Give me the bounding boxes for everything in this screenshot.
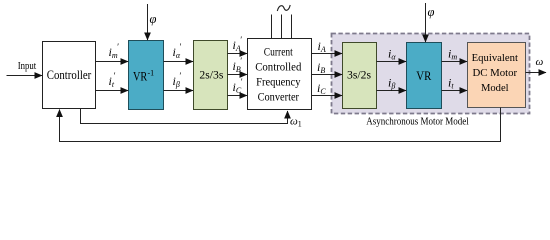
svg-text:VR: VR (133, 70, 148, 84)
svg-text:-1: -1 (148, 69, 155, 78)
wire: im VR to model (442, 61, 468, 63)
wire: iA converter to 3s/2s (312, 53, 343, 55)
block VR (407, 43, 442, 109)
wire: iC* 2s/3s to converter (228, 95, 248, 97)
svg-text:φ: φ (150, 12, 157, 26)
svg-text:2s/3s: 2s/3s (199, 68, 223, 82)
wire: i-beta* VR^-1 to 2s/3s (164, 90, 194, 92)
svg-text:Current: Current (264, 47, 294, 59)
svg-text:Equivalent: Equivalent (472, 52, 518, 64)
wire: it* Controller to VR^-1 (96, 90, 129, 92)
block Equivalent DC Motor Model (468, 43, 526, 108)
svg-text:DC Motor: DC Motor (472, 67, 517, 79)
wire: iB converter to 3s/2s (312, 74, 343, 76)
svg-text:Controlled: Controlled (255, 62, 301, 74)
block 2s/3s (194, 41, 228, 110)
wire: phi arrow right (425, 3, 427, 42)
wire: omega1 controller to converter (81, 109, 288, 124)
wire: omega output (526, 72, 547, 74)
svg-text:it′: it′ (109, 71, 117, 89)
wire: iC converter to 3s/2s (312, 95, 343, 97)
svg-text:Converter: Converter (258, 92, 300, 104)
svg-text:iB′: iB′ (233, 56, 243, 74)
wire: Input arrow (7, 75, 43, 77)
svg-text:iB: iB (317, 60, 325, 75)
wire: iB* 2s/3s to converter (228, 74, 248, 76)
svg-text:Controller: Controller (47, 68, 92, 82)
svg-text:iA′: iA′ (233, 35, 243, 53)
svg-text:iα′: iα′ (173, 42, 183, 60)
svg-text:φ: φ (428, 5, 435, 19)
svg-text:Input: Input (18, 61, 37, 72)
wire: omega feedback to controller (60, 108, 501, 142)
svg-text:Frequency: Frequency (256, 77, 301, 89)
svg-text:Model: Model (481, 82, 509, 94)
wire: it VR to model (442, 90, 468, 92)
wire: im* Controller to VR^-1 (96, 61, 129, 63)
block Controller (43, 42, 96, 109)
svg-text:ω1: ω1 (290, 116, 302, 129)
svg-text:im′: im′ (109, 42, 120, 60)
svg-text:iβ′: iβ′ (173, 71, 182, 89)
block VR^-1 (129, 41, 164, 110)
svg-text:iA: iA (318, 39, 326, 54)
wire: i-beta 3s/2s to VR (377, 90, 407, 92)
wire: i-alpha 3s/2s to VR (377, 61, 407, 63)
block 3s/2s (343, 43, 377, 109)
svg-text:VR: VR (416, 69, 432, 83)
dashed container: Asynchronous Motor Model (332, 34, 530, 114)
svg-text:ω: ω (536, 56, 544, 68)
svg-text:Asynchronous Motor Model: Asynchronous Motor Model (366, 117, 469, 128)
wire: phi arrow left (147, 4, 149, 40)
svg-text:iC′: iC′ (233, 77, 244, 95)
wire: i-alpha* VR^-1 to 2s/3s (164, 61, 194, 63)
block Current Controlled Frequency Converter (248, 39, 312, 110)
svg-text:3s/2s: 3s/2s (347, 68, 371, 82)
svg-text:iC: iC (317, 81, 326, 96)
AC supply symbol (272, 5, 292, 39)
wire: iA* 2s/3s to converter (228, 53, 248, 55)
